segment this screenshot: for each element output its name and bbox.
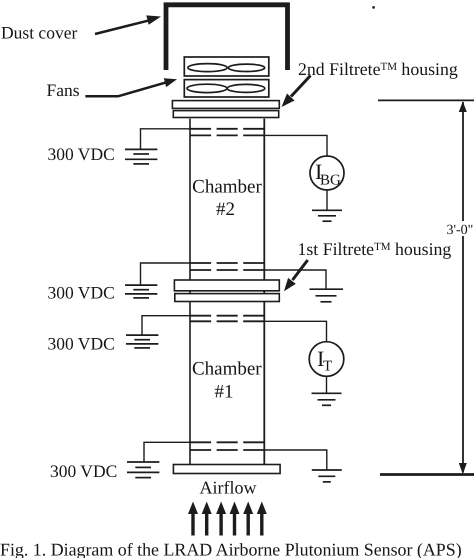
svg-text:Dust cover: Dust cover [1, 23, 77, 43]
2nd Filtrete housing plate 1 [172, 101, 279, 109]
wire: IBG to ground [326, 190, 328, 210]
airflow arrow 3 [216, 502, 226, 536]
electrode grid pair 3 lower (dashed) [190, 320, 264, 322]
wire: IT to ground [326, 376, 328, 393]
electrode grid pair 1 lower (dashed) [190, 134, 264, 136]
airflow arrow 1 [188, 502, 198, 536]
svg-text:300 VDC: 300 VDC [48, 144, 115, 164]
arrow to 2nd housing [282, 76, 311, 108]
battery B1 300 VDC [125, 149, 157, 164]
dimension arrowhead bottom [459, 463, 467, 474]
wire: chamber to ground (mid) [264, 270, 326, 289]
svg-text:3'-0": 3'-0" [447, 223, 474, 238]
arrow to 1st housing [284, 260, 308, 291]
svg-text:Airflow: Airflow [200, 478, 257, 498]
1st Filtrete housing plate 2 [175, 294, 279, 302]
airflow arrow 6 [257, 502, 267, 536]
wire: chamber to meter IBG [264, 135, 327, 156]
svg-text:#1: #1 [215, 382, 234, 403]
ground below IBG [312, 210, 342, 221]
battery B3 300 VDC [126, 335, 158, 348]
dimension arrowhead top [459, 101, 467, 112]
electrode grid pair 2 upper (dashed) [190, 262, 264, 264]
chamber left wall [189, 119, 191, 465]
svg-text:300 VDC: 300 VDC [50, 461, 117, 481]
airflow arrow 5 [243, 502, 253, 536]
svg-text:Fans: Fans [47, 80, 80, 100]
wire: chamber to battery B3 [142, 316, 190, 335]
airflow arrow 4 [230, 502, 240, 536]
dust cover [166, 5, 288, 70]
wire: chamber to battery B4 [144, 442, 190, 461]
meter IT [309, 342, 344, 377]
dimension bottom reference line [380, 473, 474, 476]
2nd Filtrete housing plate 2 [173, 111, 278, 118]
ground (bottom right) [312, 470, 342, 482]
fan unit 2 (lower fan box) [184, 80, 268, 97]
1st Filtrete housing plate 1 [174, 280, 279, 291]
svg-text:Chamber: Chamber [192, 359, 262, 380]
wire: chamber to battery B2 [141, 263, 191, 285]
svg-text:Chamber: Chamber [192, 177, 262, 198]
svg-text:300 VDC: 300 VDC [48, 283, 115, 303]
svg-text:300 VDC: 300 VDC [48, 334, 115, 354]
ground below IT [312, 393, 342, 405]
wire: chamber to meter IT [264, 321, 326, 341]
chamber base plate [173, 465, 280, 474]
electrode grid pair 4 upper (dashed) [190, 441, 264, 443]
svg-text:1st FiltreteTM housing: 1st FiltreteTM housing [298, 239, 452, 259]
airflow arrow 2 [202, 502, 212, 536]
chamber right wall [263, 119, 265, 465]
dimension vertical line [462, 102, 464, 473]
meter IBG [310, 156, 344, 190]
ground (mid right) [310, 289, 344, 302]
arrow to dust cover [95, 15, 161, 34]
dimension top reference line [378, 99, 474, 101]
electrode grid pair 1 upper (dashed) [190, 128, 264, 130]
svg-text:Fig. 1. Diagram of the LRAD Ai: Fig. 1. Diagram of the LRAD Airborne Plu… [0, 539, 462, 558]
wire: chamber to ground (bottom right) [264, 450, 327, 470]
arrow to fans [85, 78, 177, 96]
fan unit 1 (top fan box) [184, 57, 268, 76]
wire: chamber to battery B1 [141, 129, 191, 149]
svg-text:#2: #2 [216, 199, 235, 220]
electrode grid pair 4 lower (dashed) [190, 449, 264, 451]
electrode grid pair 3 upper (dashed) [190, 315, 264, 317]
battery B4 300 VDC [127, 462, 159, 478]
svg-text:BG: BG [320, 173, 341, 189]
battery B2 300 VDC [125, 285, 157, 298]
white mask behind dimension label [446, 221, 474, 236]
svg-text:2nd FiltreteTM housing: 2nd FiltreteTM housing [298, 59, 458, 79]
svg-text:T: T [323, 359, 332, 375]
scan speck [372, 6, 375, 9]
electrode grid pair 2 lower (dashed) [190, 269, 264, 271]
